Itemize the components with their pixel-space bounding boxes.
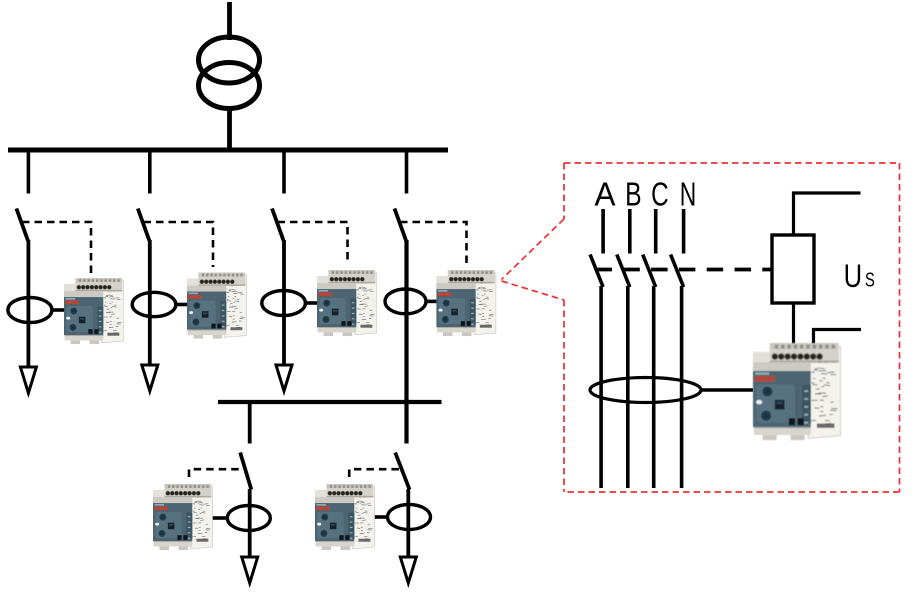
breaker QF6 (open switch blade): [395, 453, 409, 490]
transformer T1 (two-winding symbol): [199, 37, 260, 109]
wire: phase C upper conductor: [654, 209, 658, 254]
current transformer CT5: [227, 506, 270, 531]
phase labels A B C N: [595, 175, 697, 212]
breaker pole C (open blade): [643, 255, 656, 288]
main busbar: [8, 148, 448, 153]
wire: busbar drop feeder 1: [27, 150, 31, 194]
current transformer CT6: [388, 505, 431, 530]
dashed mechanical link breaker to Us supply: [596, 268, 773, 272]
wire: busbar drop feeder 2: [148, 150, 152, 194]
wire: phase B lower conductor: [626, 286, 630, 488]
residual current monitor device 6: [315, 484, 375, 550]
residual current monitor device 5: [153, 484, 213, 550]
breaker pole A (open blade): [590, 255, 603, 288]
breaker QF5 (open switch blade): [240, 453, 251, 490]
dashed trip wire breaker 6 to monitor: [349, 469, 399, 482]
breaker QF3 (open switch blade): [272, 209, 284, 241]
dashed trip wire breaker 1 to monitor: [22, 222, 91, 273]
callout pointer lines to device 4: [502, 219, 565, 300]
dashed trip wire breaker 4 to monitor: [400, 222, 467, 265]
svg-text:A: A: [595, 175, 616, 212]
wire: feeder 4 line down to sub busbar: [404, 240, 408, 444]
breaker pole B (open blade): [617, 255, 630, 288]
wire: sub busbar drop feeder 5: [248, 402, 252, 444]
svg-text:N: N: [680, 175, 697, 212]
dashed trip wire breaker 2 to monitor: [144, 222, 214, 267]
breaker QF2 (open switch blade): [138, 209, 150, 241]
wire: phase N lower conductor: [680, 286, 684, 488]
load arrow feeder 2: [142, 365, 158, 391]
load arrow feeder 1: [20, 367, 36, 393]
load arrow feeder 5: [242, 557, 258, 583]
wire: phase B upper conductor: [628, 209, 632, 254]
wire: Us top to supply: [794, 193, 861, 235]
current transformer CT (detail): [590, 378, 701, 403]
wire: feeder 2 line through CT: [148, 240, 152, 366]
wire: Us bottom to monitor: [792, 303, 795, 350]
wire: feeder 5 line through CT: [248, 489, 252, 557]
wire: CT2 to monitor: [176, 303, 188, 307]
wire: phase N upper conductor: [682, 209, 686, 254]
wire: phase C lower conductor: [652, 286, 656, 488]
residual current monitor device 1: [64, 278, 124, 344]
current transformer CT2: [132, 292, 176, 316]
current transformer CT3: [262, 291, 306, 316]
wire: CT1 to monitor: [52, 308, 65, 312]
wire: CT4 to monitor: [426, 300, 437, 304]
current transformer CT1: [8, 298, 52, 323]
dashed trip wire breaker 5 to monitor: [189, 469, 239, 482]
load arrow feeder 3: [276, 365, 292, 391]
wire: CT3 to monitor: [305, 301, 317, 305]
wire: phase A upper conductor: [601, 209, 605, 254]
dashed trip wire breaker 3 to monitor: [278, 222, 348, 265]
power supply Us rectangle: [772, 235, 814, 303]
svg-text:C: C: [651, 175, 669, 212]
sub busbar: [218, 400, 442, 404]
load arrow feeder 6: [400, 557, 416, 583]
svg-text:S: S: [865, 268, 875, 291]
wire: feeder 1 line through CT: [26, 240, 30, 368]
breaker QF4 (open switch blade): [395, 209, 407, 241]
wire: CT detail to monitor: [701, 388, 753, 392]
residual current monitor device 2: [187, 273, 247, 339]
residual current monitor device 4: [436, 270, 496, 336]
breaker QF1 (open switch blade): [16, 209, 28, 241]
svg-text:U: U: [844, 258, 863, 294]
wire: incoming supply to transformer: [227, 2, 232, 40]
detail zoom box (red dashed): [564, 163, 900, 492]
svg-text:B: B: [625, 175, 642, 212]
current transformer CT4: [385, 289, 426, 314]
residual current monitor device 3: [317, 270, 377, 336]
wire: CT6 to monitor 6: [373, 515, 388, 519]
wire: CT5 to monitor 5: [212, 516, 226, 520]
wire: feeder 6 line through CT: [406, 489, 410, 557]
wire: monitor output to right: [814, 330, 862, 351]
breaker pole N (open blade): [671, 255, 684, 288]
wire: transformer to main busbar: [227, 106, 232, 150]
wire: phase A lower conductor: [599, 286, 603, 488]
wire: busbar drop feeder 3: [282, 150, 286, 194]
wire: feeder 3 line through CT: [282, 240, 286, 366]
wire: busbar drop feeder 4: [405, 150, 409, 194]
residual current monitor device (detail): [753, 343, 841, 440]
